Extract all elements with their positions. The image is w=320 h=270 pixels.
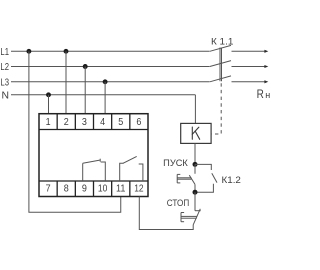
wire L1 to terminal 2	[65, 51, 67, 113]
svg-text:7: 7	[46, 184, 51, 195]
svg-text:СТОП: СТОП	[167, 198, 189, 208]
svg-text:ПУСК: ПУСК	[163, 158, 188, 168]
wire to load phase 3 (arrow)	[232, 80, 269, 83]
wire L1 to terminal 11 (bottom loop)	[29, 51, 121, 212]
wire N to terminal 1	[48, 95, 50, 114]
svg-text:К1.2: К1.2	[222, 175, 241, 186]
node J4 (L3 / terminal 4)	[103, 79, 108, 84]
svg-text:10: 10	[98, 184, 108, 195]
wire L3 to terminal 4	[104, 82, 106, 114]
node start-top	[193, 162, 198, 167]
wire start node to СТОП	[194, 192, 196, 211]
node start-bottom	[193, 190, 198, 195]
internal relay contact 11-12	[120, 156, 143, 181]
dashed mechanical link K1.1 to coil K	[211, 83, 221, 134]
node J5 (N / terminal 1)	[46, 92, 51, 97]
svg-text:5: 5	[118, 117, 123, 128]
wire N to coil K	[194, 95, 196, 124]
svg-text:L2: L2	[0, 62, 9, 73]
contact K1.2 (self hold)	[195, 164, 217, 192]
net L3	[0, 77, 209, 88]
svg-text:R: R	[257, 87, 264, 101]
svg-text:1: 1	[46, 117, 51, 128]
net L1	[0, 47, 209, 58]
net L2	[0, 62, 209, 73]
svg-text:11: 11	[116, 184, 126, 195]
terminal row top (1-6)	[39, 114, 148, 130]
contact K1.1 (three pole)	[210, 45, 231, 81]
svg-text:3: 3	[82, 117, 87, 128]
svg-text:К 1.1: К 1.1	[211, 37, 233, 48]
svg-text:4: 4	[100, 117, 105, 128]
svg-text:н: н	[265, 90, 270, 100]
wire to load phase 1 (arrow)	[232, 50, 269, 53]
wire L2 to terminal 3	[84, 67, 86, 114]
node J3 (L2 / terminal 3)	[83, 64, 88, 69]
wire СТОП to terminal 12	[139, 197, 193, 230]
node J1 (L1 / loop wire)	[26, 49, 31, 54]
load label RH	[257, 87, 271, 101]
svg-text:8: 8	[64, 184, 69, 195]
relay coil K	[181, 123, 211, 143]
svg-text:6: 6	[136, 117, 141, 128]
wire coil K to start node	[194, 143, 196, 164]
wire to load phase 2 (arrow)	[232, 65, 269, 68]
svg-text:L3: L3	[0, 77, 9, 88]
button ПУСК (start, NO pushbutton)	[177, 164, 195, 192]
relay device body	[39, 114, 148, 197]
internal relay contact 9-10	[83, 159, 106, 181]
svg-text:12: 12	[134, 184, 144, 195]
svg-text:N: N	[1, 90, 9, 101]
svg-text:L1: L1	[0, 47, 9, 58]
net N	[1, 90, 195, 101]
terminal row bottom (7-12)	[39, 181, 148, 197]
svg-text:9: 9	[82, 184, 87, 195]
button СТОП (stop, NC pushbutton)	[181, 209, 201, 225]
node J2 (L1 / terminal 2)	[64, 49, 69, 54]
svg-text:2: 2	[64, 117, 69, 128]
